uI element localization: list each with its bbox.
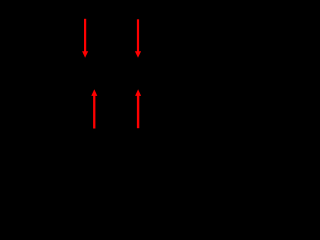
current arrow i3 (bottom-left, pointing up)	[91, 89, 97, 128]
current arrow i2 (top-right, pointing down)	[135, 19, 141, 57]
node D (bottom-right terminal)	[136, 89, 140, 93]
wire: bottom conductor	[20, 90, 257, 92]
node B (top-right terminal)	[136, 61, 140, 65]
node C (bottom-left terminal)	[92, 89, 96, 93]
current arrow i4 (bottom-right, pointing up)	[135, 89, 141, 128]
node A (top-left terminal)	[83, 61, 87, 65]
current arrow i1 (top-left, pointing down)	[82, 19, 88, 58]
wire: top conductor	[20, 62, 257, 64]
